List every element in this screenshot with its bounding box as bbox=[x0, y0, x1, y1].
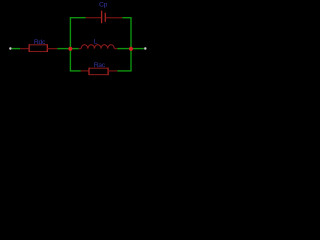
wire top-right vertical down to node B bbox=[130, 18, 132, 49]
wire node A up (left vertical of top loop) bbox=[69, 18, 71, 49]
wire Cp to top-right corner bbox=[122, 17, 131, 19]
wire L to node B bbox=[117, 48, 131, 50]
svg-text:L: L bbox=[94, 38, 98, 45]
inductor L bbox=[79, 45, 118, 49]
resistor Rac bbox=[81, 68, 118, 75]
node OUT terminal dot bbox=[144, 47, 146, 49]
wire node B to OUT terminal bbox=[131, 48, 144, 50]
svg-text:Rdc: Rdc bbox=[34, 39, 46, 46]
wire from IN terminal to Rdc bbox=[12, 48, 21, 50]
background bbox=[0, 0, 160, 84]
wire node A to L bbox=[70, 48, 78, 50]
junction node A bbox=[68, 47, 72, 51]
label Cp bbox=[99, 1, 108, 8]
svg-text:Cp: Cp bbox=[99, 1, 108, 8]
wire bottom-left horizontal to Rac bbox=[70, 70, 81, 72]
wire bottom-right vertical up to node B bbox=[130, 49, 132, 71]
capacitor Cp bbox=[86, 11, 123, 24]
node IN terminal dot bbox=[9, 47, 11, 49]
label L bbox=[94, 38, 98, 45]
resistor Rdc bbox=[20, 44, 57, 52]
label Rdc bbox=[34, 39, 46, 46]
wire node A down (left vertical of bottom loop) bbox=[69, 49, 71, 71]
junction node B bbox=[129, 47, 133, 51]
wire Rdc to node A bbox=[57, 48, 70, 50]
wire Rac to bottom-right corner bbox=[117, 70, 131, 72]
svg-text:Rac: Rac bbox=[94, 62, 106, 69]
wire top-left horizontal to Cp bbox=[70, 17, 86, 19]
label Rac bbox=[94, 62, 106, 69]
